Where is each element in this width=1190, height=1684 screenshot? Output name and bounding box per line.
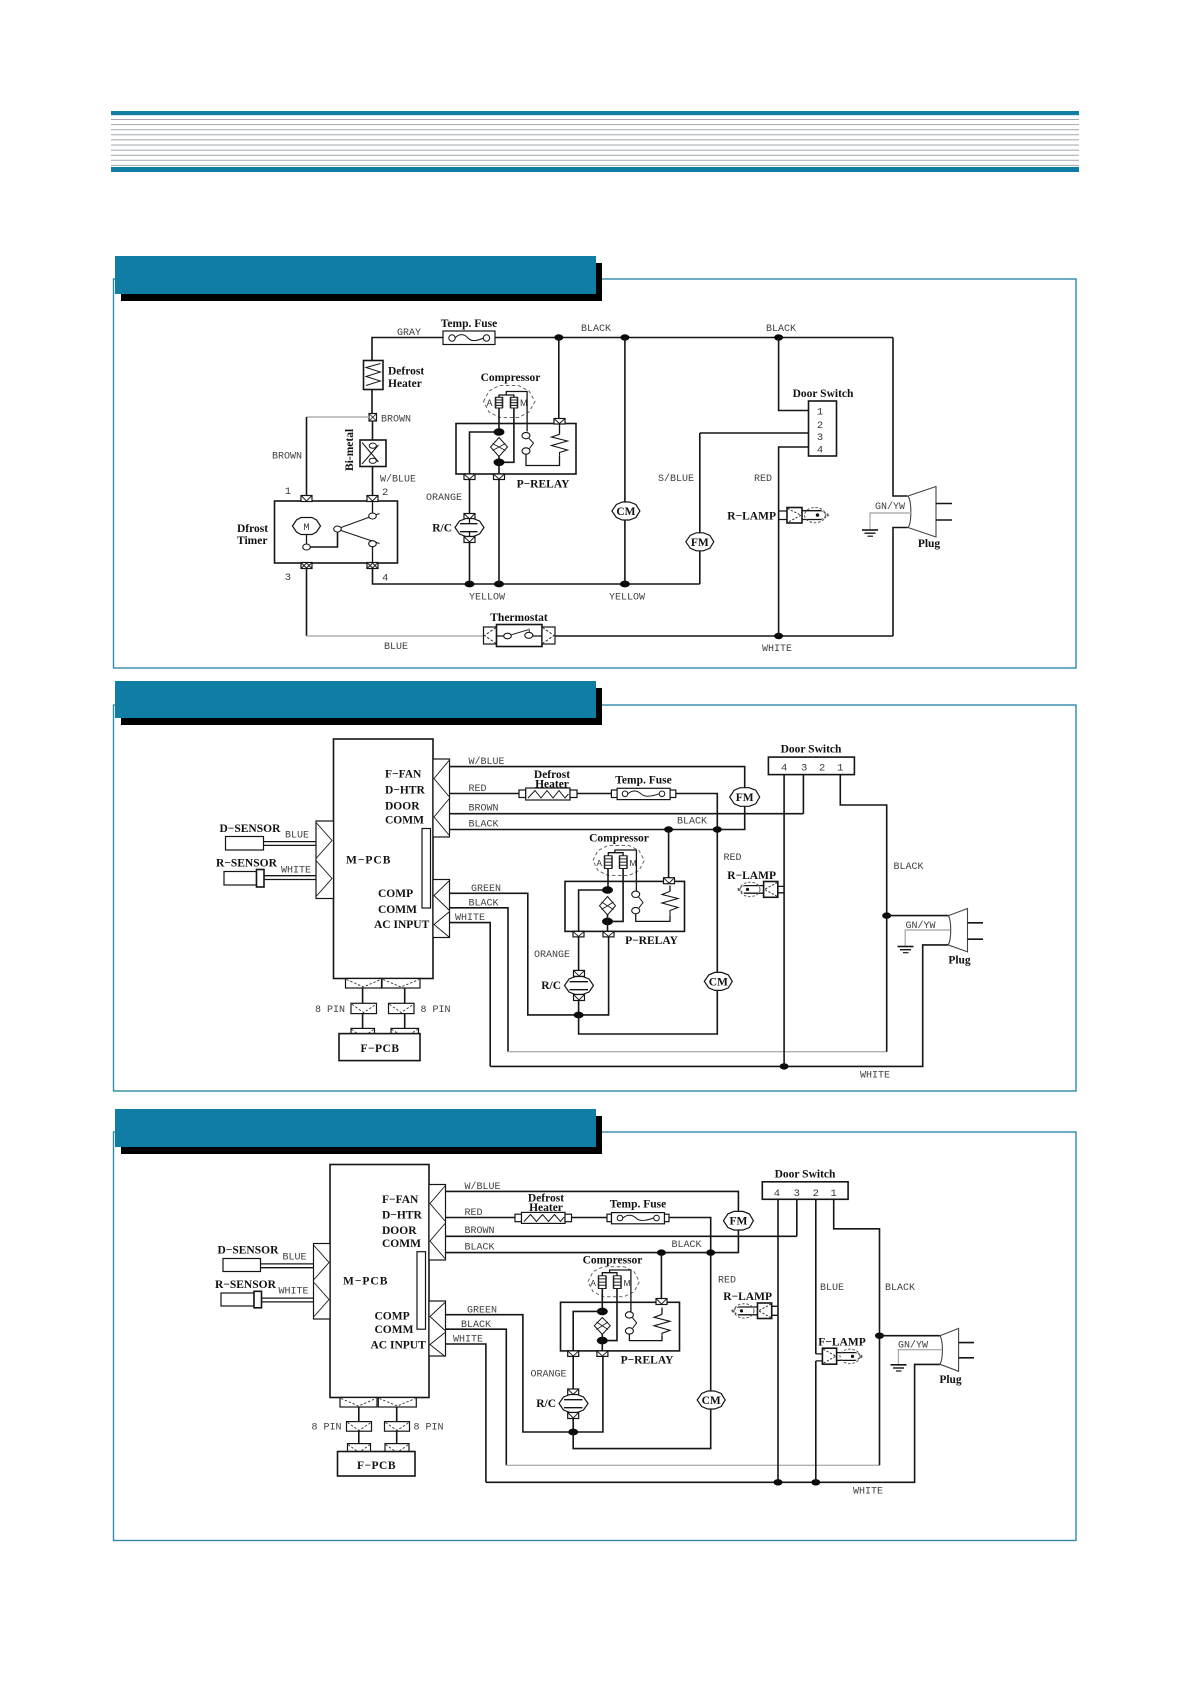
svg-text:DOOR: DOOR xyxy=(385,801,420,813)
wire contact bottom to resistor xyxy=(526,454,560,465)
junction dot xyxy=(554,334,563,340)
svg-text:DOOR: DOOR xyxy=(382,1225,417,1237)
wire BLACK route xyxy=(450,908,509,1052)
wire relay left branch xyxy=(470,432,500,474)
svg-text:Compressor: Compressor xyxy=(481,372,541,384)
mpcb bottom connector 2 xyxy=(378,1398,416,1408)
wire W/BLUE xyxy=(450,767,745,789)
svg-text:RED: RED xyxy=(754,474,772,485)
wire relay pin2 to yellow xyxy=(498,479,500,584)
wire BLACK bus xyxy=(446,1229,739,1252)
wire plug bottom to white bus xyxy=(893,528,908,637)
junction dot xyxy=(657,1249,666,1255)
mpcb bottom connector 1 xyxy=(340,1398,377,1408)
relay resistor zigzag xyxy=(552,434,568,456)
wire blue gray xyxy=(307,635,484,637)
svg-text:8 PIN: 8 PIN xyxy=(311,1423,341,1434)
svg-text:GREEN: GREEN xyxy=(467,1306,497,1317)
wire black gray run xyxy=(508,1051,887,1053)
section 1 title bar xyxy=(115,256,596,294)
svg-text:Heater: Heater xyxy=(529,1202,563,1214)
wire fuse to CM riser xyxy=(676,794,718,974)
wire fuse to CM riser xyxy=(669,1218,711,1393)
compressor outline xyxy=(593,846,644,876)
svg-text:M: M xyxy=(303,522,309,534)
svg-text:BROWN: BROWN xyxy=(272,452,302,463)
ground symbol xyxy=(862,530,878,536)
8pin bowtie right xyxy=(385,1422,410,1432)
svg-text:Timer: Timer xyxy=(237,535,267,547)
section 2 box xyxy=(114,705,1077,1091)
junction dot xyxy=(597,1337,608,1345)
svg-text:BLACK: BLACK xyxy=(766,324,796,335)
svg-text:GN/YW: GN/YW xyxy=(905,920,935,932)
timer contact circle xyxy=(303,544,311,550)
wire relay left branch xyxy=(579,890,608,931)
relay resistor zigzag xyxy=(654,1314,670,1335)
svg-text:BROWN: BROWN xyxy=(469,804,499,815)
wire BLACK route xyxy=(446,1329,507,1465)
section 3 title bar xyxy=(115,1109,596,1147)
svg-text:Door Switch: Door Switch xyxy=(793,388,854,400)
junction dot xyxy=(774,1479,783,1485)
wire W/BLUE xyxy=(446,1191,739,1212)
wire rc to yellow bus xyxy=(469,543,471,585)
svg-text:Temp. Fuse: Temp. Fuse xyxy=(441,318,497,330)
right top connector xyxy=(429,1185,446,1261)
wire gray brown to left xyxy=(307,416,370,418)
svg-text:BLACK: BLACK xyxy=(885,1283,915,1294)
junction dot xyxy=(664,826,673,832)
F-PCB board U2 xyxy=(338,1452,416,1477)
svg-text:1: 1 xyxy=(285,486,291,498)
wire dot2 down xyxy=(498,457,500,475)
wire door pin1 to bus xyxy=(779,338,809,411)
wire door pin3 xyxy=(802,775,804,814)
svg-text:3: 3 xyxy=(285,572,291,584)
svg-text:BLACK: BLACK xyxy=(581,324,611,335)
svg-text:A: A xyxy=(486,398,492,408)
junction dot xyxy=(568,1429,578,1436)
svg-text:WHITE: WHITE xyxy=(860,1071,890,1082)
svg-text:4: 4 xyxy=(774,1188,780,1200)
door switch connector xyxy=(809,401,837,457)
wire black top bus xyxy=(495,337,893,339)
svg-text:S/BLUE: S/BLUE xyxy=(658,473,694,485)
svg-text:3: 3 xyxy=(801,763,807,775)
header band bottom rule xyxy=(111,167,1079,172)
fpcb bowtie right xyxy=(391,1028,419,1038)
junction dot white xyxy=(774,633,783,639)
lamp R-LAMP xyxy=(779,507,830,523)
section 3 box xyxy=(114,1132,1077,1541)
door switch connector xyxy=(762,1182,848,1200)
svg-text:R/C: R/C xyxy=(536,1398,556,1410)
svg-text:WHITE: WHITE xyxy=(455,913,485,924)
bowtie resistor pin xyxy=(664,878,675,884)
wire door pin1 xyxy=(834,1199,880,1465)
svg-text:4: 4 xyxy=(382,573,388,585)
wire coil A down xyxy=(607,869,609,891)
wire white bus xyxy=(490,945,948,1067)
wire R twin xyxy=(262,1298,314,1302)
svg-text:Dfrost: Dfrost xyxy=(237,523,268,535)
contact link xyxy=(639,897,643,908)
svg-text:P−RELAY: P−RELAY xyxy=(625,935,678,947)
defrost heater R1 xyxy=(364,361,384,390)
capacitor R/C xyxy=(455,514,484,543)
sensor D rect xyxy=(223,1259,261,1272)
wire resistor top xyxy=(669,886,671,892)
svg-text:A: A xyxy=(590,1278,596,1288)
svg-text:1: 1 xyxy=(831,1188,837,1200)
lamp F-LAMP xyxy=(816,1348,863,1364)
wire heater-fuse xyxy=(577,793,611,795)
svg-text:R−LAMP: R−LAMP xyxy=(727,870,776,882)
R/C branch wire from relay pin1 xyxy=(469,479,471,514)
wire CM vertical xyxy=(624,338,626,585)
svg-text:RED: RED xyxy=(465,1208,483,1219)
wire door pin3 xyxy=(796,1199,798,1236)
svg-text:COMM: COMM xyxy=(378,904,417,916)
bowtie relay pin1 xyxy=(568,1351,579,1357)
pin bowtie 4 xyxy=(367,563,378,569)
svg-text:M−PCB: M−PCB xyxy=(343,1276,388,1288)
svg-text:COMP: COMP xyxy=(375,1311,410,1323)
motor CM xyxy=(697,1391,725,1409)
svg-text:YELLOW: YELLOW xyxy=(609,593,645,604)
svg-text:BLACK: BLACK xyxy=(465,1243,495,1254)
coil M xyxy=(619,856,628,869)
contact link xyxy=(529,439,534,449)
svg-text:2: 2 xyxy=(817,420,823,432)
svg-text:COMM: COMM xyxy=(382,1238,421,1250)
comm bracket xyxy=(417,1252,426,1330)
section 3 title bar shadow xyxy=(121,1116,602,1154)
thermostat S2 xyxy=(484,625,556,647)
coil A xyxy=(598,1276,607,1289)
fpcb bowtie left xyxy=(348,1444,371,1454)
svg-text:Door Switch: Door Switch xyxy=(775,1169,836,1181)
svg-text:W/BLUE: W/BLUE xyxy=(469,756,505,768)
wire down left xyxy=(362,988,364,1003)
wire FM vertical xyxy=(699,433,701,584)
svg-text:RED: RED xyxy=(723,853,741,864)
svg-text:COMM: COMM xyxy=(375,1324,414,1336)
left sensor connector xyxy=(316,821,334,899)
wire resistor pin to black dot xyxy=(660,1253,662,1299)
wire rc down to dot xyxy=(572,1419,574,1433)
8pin bowtie right xyxy=(389,1003,415,1013)
door switch connector xyxy=(768,757,854,775)
junction dot xyxy=(602,886,613,894)
svg-text:WHITE: WHITE xyxy=(762,644,792,655)
svg-text:BLUE: BLUE xyxy=(285,831,309,842)
bowtie relay pin2 xyxy=(494,474,505,480)
svg-text:R−LAMP: R−LAMP xyxy=(723,1291,772,1303)
svg-text:Thermostat: Thermostat xyxy=(490,612,548,624)
svg-text:BLACK: BLACK xyxy=(469,820,499,831)
sensor R rect xyxy=(221,1291,262,1308)
right top connector xyxy=(433,759,450,837)
svg-text:R/C: R/C xyxy=(541,980,561,992)
wire coil tops U xyxy=(602,1273,617,1276)
svg-text:CM: CM xyxy=(616,506,635,518)
svg-text:ORANGE: ORANGE xyxy=(534,950,570,961)
p-relay box xyxy=(561,1302,680,1351)
junction dot xyxy=(597,1308,608,1316)
svg-text:8 PIN: 8 PIN xyxy=(421,1005,451,1016)
wire door pin1 xyxy=(840,775,886,1052)
wire loop to CM xyxy=(579,990,718,1035)
coil M xyxy=(613,1276,622,1289)
svg-text:1: 1 xyxy=(837,763,843,775)
svg-text:F−FAN: F−FAN xyxy=(382,1194,419,1206)
bowtie relay pin1 xyxy=(464,474,475,480)
svg-text:GREEN: GREEN xyxy=(471,884,501,895)
p-relay box xyxy=(456,424,576,475)
wire contact to pivot xyxy=(310,533,337,548)
temp fuse TF2 xyxy=(611,788,675,799)
wire resistor pin to bus xyxy=(558,338,560,419)
compressor outline xyxy=(484,386,536,418)
M-PCB board U1 xyxy=(334,739,434,979)
timer motor M xyxy=(293,518,321,535)
section 1 title bar shadow xyxy=(121,263,602,301)
8pin bowtie left xyxy=(347,1422,372,1432)
compressor outline xyxy=(588,1267,639,1297)
defrost heater R1 xyxy=(519,788,577,800)
lamp R-LAMP xyxy=(737,882,784,898)
wire GREEN xyxy=(446,1315,603,1432)
svg-text:CM: CM xyxy=(709,976,728,988)
svg-text:R−SENSOR: R−SENSOR xyxy=(215,1279,277,1291)
svg-text:M: M xyxy=(630,858,637,868)
svg-text:Plug: Plug xyxy=(918,538,941,550)
svg-text:BLACK: BLACK xyxy=(677,817,707,828)
wire D twin xyxy=(261,1264,314,1268)
svg-text:Door Switch: Door Switch xyxy=(781,744,842,756)
M-PCB board U1 xyxy=(330,1165,429,1398)
left sensor connector xyxy=(314,1244,331,1320)
svg-text:D−SENSOR: D−SENSOR xyxy=(218,1245,280,1257)
temp fuse TF1 xyxy=(443,331,495,345)
svg-text:RED: RED xyxy=(718,1276,736,1287)
plug P1 xyxy=(948,909,983,952)
svg-text:R/C: R/C xyxy=(432,523,452,535)
wire left vertical to timer pin1 xyxy=(306,417,308,496)
mpcb bottom connector 1 xyxy=(346,979,382,989)
contact circle pin4 xyxy=(369,541,377,547)
F-PCB board U2 xyxy=(339,1034,420,1061)
wire resistor top xyxy=(559,424,561,435)
svg-text:F−LAMP: F−LAMP xyxy=(818,1337,865,1349)
wire coil A down xyxy=(498,408,500,432)
svg-text:P−RELAY: P−RELAY xyxy=(621,1355,674,1367)
wire D twin xyxy=(264,842,317,846)
svg-text:ORANGE: ORANGE xyxy=(530,1370,566,1381)
svg-text:ORANGE: ORANGE xyxy=(426,493,462,504)
svg-text:WHITE: WHITE xyxy=(453,1335,483,1346)
connector BROWN xyxy=(369,414,377,422)
svg-text:BLACK: BLACK xyxy=(894,862,924,873)
wire connector to bimetal xyxy=(372,421,374,440)
mpcb bottom connector 2 xyxy=(382,979,420,989)
wire BROWN xyxy=(450,813,804,815)
header band gray lines xyxy=(111,120,1079,166)
plug P1 xyxy=(908,487,952,538)
svg-text:BLUE: BLUE xyxy=(282,1253,306,1264)
plug P1 xyxy=(940,1328,974,1371)
junction dot xyxy=(620,581,630,588)
wire down right xyxy=(404,988,406,1003)
svg-text:W/BLUE: W/BLUE xyxy=(465,1181,501,1193)
svg-text:4: 4 xyxy=(817,445,823,457)
svg-text:F−PCB: F−PCB xyxy=(357,1460,396,1472)
contact link xyxy=(632,1318,636,1329)
svg-text:M: M xyxy=(624,1278,631,1288)
motor CM xyxy=(612,502,640,520)
svg-text:WHITE: WHITE xyxy=(853,1487,883,1498)
svg-text:Compressor: Compressor xyxy=(589,833,649,845)
svg-text:COMP: COMP xyxy=(378,888,413,900)
svg-text:FM: FM xyxy=(729,1216,747,1228)
wire down left2 xyxy=(358,1431,360,1443)
wire coil tops U xyxy=(608,853,623,856)
motor FM xyxy=(730,788,760,807)
junction dot plug top xyxy=(875,1333,884,1339)
svg-text:F−PCB: F−PCB xyxy=(360,1043,399,1055)
svg-text:D−SENSOR: D−SENSOR xyxy=(220,823,282,835)
coil A xyxy=(604,856,613,869)
svg-text:AC INPUT: AC INPUT xyxy=(371,1340,427,1352)
svg-text:Plug: Plug xyxy=(948,955,971,967)
wire door pin2 lower xyxy=(815,1361,817,1482)
wire door pin4 to white bus xyxy=(777,1199,779,1482)
junction dot xyxy=(620,334,629,340)
motor FM xyxy=(686,533,714,551)
pin bowtie 1 xyxy=(301,496,312,502)
wire contact to resistor xyxy=(629,1334,662,1341)
svg-text:BLACK: BLACK xyxy=(671,1240,701,1251)
defrost timer T1 xyxy=(275,501,398,563)
wire BLACK bus xyxy=(450,806,745,830)
svg-text:BROWN: BROWN xyxy=(465,1226,495,1237)
svg-text:YELLOW: YELLOW xyxy=(469,593,505,604)
junction dot xyxy=(494,581,504,588)
switch arm upper xyxy=(341,514,380,528)
bowtie resistor pin xyxy=(656,1299,667,1305)
svg-text:Heater: Heater xyxy=(535,779,569,791)
wire door pin4 to white bus xyxy=(783,775,785,1067)
bi-metal S1 xyxy=(360,440,386,467)
svg-text:FM: FM xyxy=(691,537,709,549)
right bottom connector xyxy=(433,880,450,938)
svg-text:4: 4 xyxy=(781,763,787,775)
wire pin2 internal xyxy=(372,502,374,514)
junction dot plug top xyxy=(882,912,891,918)
wire right vertical to plug xyxy=(893,338,908,497)
section 1 box xyxy=(114,279,1077,668)
sensor D rect xyxy=(226,837,264,851)
switch arm lower xyxy=(341,531,380,544)
svg-text:CM: CM xyxy=(702,1395,721,1407)
wire common to contact xyxy=(615,850,637,891)
wire heater-fuse xyxy=(572,1217,608,1219)
svg-text:BLACK: BLACK xyxy=(469,899,499,910)
wire WHITE route xyxy=(446,1344,486,1482)
wire black gray run xyxy=(506,1464,879,1466)
defrost heater R1 xyxy=(515,1212,572,1223)
wire pin3 down xyxy=(306,569,308,637)
wire plug top xyxy=(887,915,949,917)
right bottom connector xyxy=(429,1301,446,1357)
header band top rule xyxy=(111,111,1079,115)
wire down left2 xyxy=(362,1014,364,1029)
svg-text:P−RELAY: P−RELAY xyxy=(517,479,570,491)
wire bimetal to pin2 xyxy=(372,467,374,497)
wire BROWN xyxy=(446,1235,797,1237)
svg-text:F−FAN: F−FAN xyxy=(385,769,422,781)
svg-text:Defrost: Defrost xyxy=(388,366,424,378)
svg-text:1: 1 xyxy=(817,407,823,419)
svg-text:A: A xyxy=(596,858,602,868)
ground symbol xyxy=(891,1365,907,1371)
svg-text:WHITE: WHITE xyxy=(281,866,311,877)
pivot circle xyxy=(334,526,342,532)
wire coil A down xyxy=(601,1289,603,1312)
svg-text:2: 2 xyxy=(813,1188,819,1200)
svg-text:BLACK: BLACK xyxy=(461,1320,491,1331)
wire down right2 xyxy=(396,1431,398,1443)
fpcb bowtie left xyxy=(351,1028,375,1038)
svg-text:3: 3 xyxy=(794,1188,800,1200)
junction dot relay bottom xyxy=(494,459,505,467)
svg-text:8 PIN: 8 PIN xyxy=(315,1005,345,1016)
wire down left xyxy=(358,1407,360,1422)
wire relay left branch xyxy=(573,1311,602,1351)
junction dot xyxy=(706,1249,715,1255)
lamp R-LAMP xyxy=(731,1303,778,1319)
overload diamond xyxy=(491,438,508,457)
p-relay box xyxy=(565,881,685,931)
wire down right2 xyxy=(404,1014,406,1029)
svg-text:RED: RED xyxy=(469,784,487,795)
wire contact to resistor xyxy=(636,914,670,922)
wire WHITE route xyxy=(450,923,491,1067)
wire heater to connector xyxy=(371,390,373,414)
relay contact bottom xyxy=(632,907,640,913)
svg-text:GN/YW: GN/YW xyxy=(875,501,905,513)
svg-text:R−LAMP: R−LAMP xyxy=(727,511,776,523)
wire rc down to dot xyxy=(578,1001,580,1016)
8pin bowtie left xyxy=(351,1003,377,1013)
wire door pin2 upper xyxy=(815,1199,817,1354)
section 2 title bar shadow xyxy=(121,688,602,725)
svg-text:COMM: COMM xyxy=(385,815,424,827)
pin bowtie 3 xyxy=(301,563,312,569)
svg-text:2: 2 xyxy=(382,487,388,499)
svg-text:R−SENSOR: R−SENSOR xyxy=(216,858,278,870)
bowtie resistor top pin xyxy=(554,419,565,425)
svg-text:BLUE: BLUE xyxy=(820,1283,844,1294)
motor FM xyxy=(723,1211,753,1230)
wire motor to contact xyxy=(306,535,308,544)
bowtie relay pin2 xyxy=(597,1351,608,1357)
wire pin4 to yellow bus xyxy=(373,569,700,585)
coil M xyxy=(510,397,518,408)
svg-text:Heater: Heater xyxy=(388,378,422,390)
